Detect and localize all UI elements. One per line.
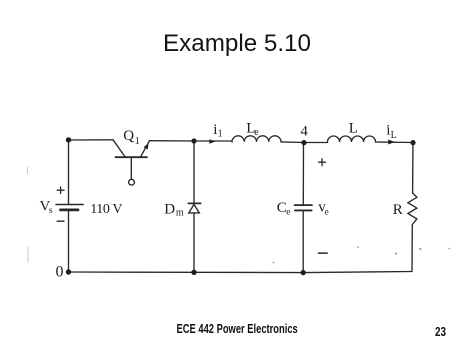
svg-text:L: L: [349, 120, 358, 136]
svg-text:110 V: 110 V: [90, 202, 122, 217]
svg-text:0: 0: [56, 264, 64, 281]
svg-text:Q: Q: [123, 128, 134, 144]
svg-text:e: e: [254, 127, 259, 138]
svg-text:1: 1: [218, 129, 223, 140]
svg-text:m: m: [176, 208, 184, 219]
svg-text:R: R: [393, 202, 403, 218]
svg-text:D: D: [164, 202, 175, 218]
svg-text:1: 1: [135, 136, 140, 147]
svg-text:s: s: [49, 206, 53, 216]
svg-text:L: L: [391, 130, 397, 141]
svg-text:e: e: [325, 207, 329, 217]
svg-text:4: 4: [300, 123, 308, 139]
svg-text:e: e: [286, 208, 290, 218]
